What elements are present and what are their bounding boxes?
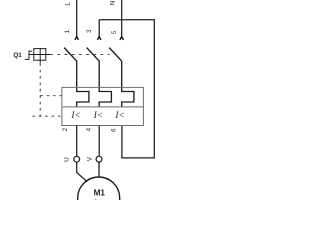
latch symbol: [25, 51, 32, 59]
wire pole 3 to thermal element: [122, 61, 134, 107]
wire L feed: [76, 0, 78, 37]
svg-text:L: L: [65, 2, 72, 6]
terminal U circle: [74, 156, 80, 162]
overload relay housing: [62, 87, 143, 125]
linkage dashed into thermal section: [40, 95, 62, 97]
wire pole 1 to thermal element: [77, 61, 89, 107]
svg-text:I<: I<: [93, 111, 103, 121]
wire terminal 4 down: [98, 126, 100, 157]
wire U to motor: [77, 162, 88, 182]
housing divider: [62, 106, 143, 108]
contact chevron pole 2: [97, 37, 101, 40]
linkage dashed into trip section: [32, 115, 62, 117]
wire N feed: [121, 0, 123, 37]
wire pole 2 to thermal element: [99, 61, 111, 107]
breaker blade pole 2: [87, 48, 100, 62]
svg-text:1: 1: [64, 29, 71, 33]
breaker blade pole 3: [109, 48, 122, 62]
svg-text:V: V: [87, 156, 94, 161]
svg-text:M1: M1: [94, 189, 106, 198]
actuator cross vertical: [39, 49, 41, 64]
svg-text:6: 6: [110, 128, 117, 132]
svg-text:2: 2: [62, 127, 69, 131]
svg-text:U: U: [64, 157, 71, 162]
svg-text:I<: I<: [114, 111, 124, 121]
svg-text:3: 3: [86, 29, 93, 33]
motor M1 circle: [78, 177, 120, 219]
svg-text:4: 4: [86, 127, 93, 131]
wire V to motor: [98, 162, 100, 177]
svg-text:Q1: Q1: [13, 52, 22, 59]
wire N branch to pole 2 top and right side loop: [99, 20, 154, 158]
wire pole 2 drop: [98, 20, 100, 37]
svg-text:I<: I<: [70, 111, 80, 121]
linkage dashed to blades: [50, 54, 109, 56]
terminal V circle: [96, 156, 102, 162]
wire terminal 2 down: [76, 126, 78, 157]
contact chevron pole 3: [120, 37, 124, 40]
actuator box Q1: [34, 49, 46, 61]
svg-text:5: 5: [111, 30, 118, 34]
svg-text:N: N: [110, 0, 117, 5]
svg-text:1~: 1~: [93, 197, 102, 200]
actuator cross horizontal: [29, 54, 50, 56]
breaker blade pole 1: [64, 48, 77, 62]
contact chevron pole 1: [75, 37, 79, 40]
linkage dashed vertical: [39, 63, 41, 116]
